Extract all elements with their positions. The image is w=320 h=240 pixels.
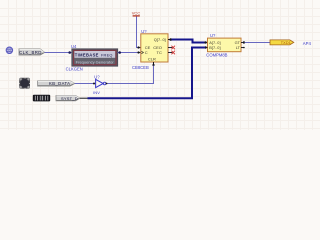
svg-text:B[7..0]: B[7..0] (209, 45, 220, 50)
svg-text:FREQ: FREQ (101, 52, 113, 57)
svg-text:INV: INV (93, 90, 100, 95)
pin CLR stub (153, 62, 155, 66)
comparator U? COMPM8B (208, 38, 242, 52)
wire VCC to CE (137, 17, 139, 48)
wire CLR to INV output (108, 66, 154, 84)
port SYST_D (56, 96, 80, 101)
wire KB_DATA to INV (75, 83, 96, 85)
svg-text:U?: U? (210, 33, 216, 38)
icon: push button (dark knob) (19, 78, 30, 89)
wire U4 FREQ to counter C (118, 52, 139, 54)
svg-text:LT: LT (236, 45, 241, 50)
pin B stub (205, 47, 207, 49)
svg-text:CLR: CLR (148, 57, 156, 62)
svg-text:TXD1: TXD1 (281, 41, 291, 45)
wire stub from SYST_D (80, 97, 88, 99)
svg-text:CLKGEN: CLKGEN (66, 67, 83, 72)
pin stub C (138, 52, 141, 54)
icon: DIP connector (striped) (33, 95, 50, 102)
no-connect X on TC (171, 51, 175, 55)
bus Q[7..0] to A[7..0] (171, 40, 205, 43)
port CLK_BRD (19, 49, 45, 55)
gate U? INV (96, 79, 106, 87)
counter U? CB8CEB (141, 34, 168, 62)
svg-text:Frequency Generator: Frequency Generator (76, 60, 115, 65)
port TXD1 (yellow) (270, 40, 294, 45)
no-connect X on CEO (171, 46, 175, 50)
svg-text:SYST_D: SYST_D (61, 96, 78, 101)
icon: oscillator bead (blue circle) (6, 47, 12, 53)
svg-text:AP4: AP4 (303, 41, 312, 46)
svg-text:CB8CEB: CB8CEB (132, 65, 149, 70)
junction at U4 input (68, 51, 71, 54)
wire CLK_BRD to U4 (45, 52, 72, 54)
pin Q stub (168, 39, 171, 41)
pin A stub (205, 42, 207, 44)
svg-text:C: C (145, 50, 148, 55)
bus SYST_D to B[7..0] (88, 48, 206, 99)
pin dot at INV output (106, 83, 108, 85)
svg-text:CLK_BRD: CLK_BRD (19, 50, 42, 55)
pin TC stub (168, 52, 172, 54)
svg-text:Q[7..0]: Q[7..0] (154, 37, 166, 42)
svg-text:COMPM8B: COMPM8B (206, 53, 227, 58)
wire GT to port (245, 42, 270, 44)
svg-text:U?: U? (94, 74, 100, 79)
component U4 frequency generator (72, 49, 118, 66)
svg-text:U?: U? (141, 29, 147, 34)
pin LT stub (241, 47, 245, 49)
svg-text:KB_DATA: KB_DATA (49, 81, 70, 86)
svg-text:TIMEBASE: TIMEBASE (75, 52, 99, 57)
svg-text:U4: U4 (71, 44, 77, 49)
pin CEO stub (168, 47, 172, 49)
port KB_DATA (38, 81, 75, 86)
pin GT stub (241, 42, 245, 44)
power VCC (132, 11, 141, 16)
pin stub CE (138, 47, 141, 49)
pin dot at INV input (93, 83, 95, 85)
svg-text:VCC: VCC (132, 11, 141, 16)
svg-text:TC: TC (157, 50, 162, 55)
junction at FREQ output (118, 51, 121, 54)
